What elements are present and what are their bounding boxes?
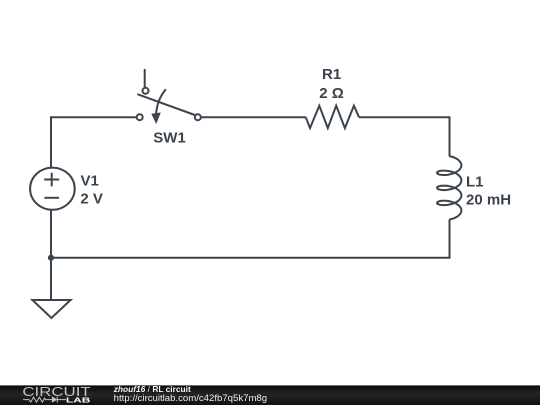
inductor L1 xyxy=(437,156,461,220)
wire SW1 right terminal to R1 xyxy=(201,116,306,118)
wire V1 bottom to ground xyxy=(50,208,52,300)
logo diode triangle xyxy=(52,396,57,402)
SW1 right terminal xyxy=(195,114,201,120)
node junction dot xyxy=(48,255,54,261)
svg-text:2 Ω: 2 Ω xyxy=(319,85,344,102)
SW1 top terminal xyxy=(143,88,149,94)
svg-text:L1: L1 xyxy=(466,174,484,191)
svg-text:R1: R1 xyxy=(322,66,341,83)
wire R1 to L1 xyxy=(359,117,450,156)
svg-text:SW1: SW1 xyxy=(153,130,186,147)
logo wire with resistor xyxy=(23,397,52,402)
svg-text:2 V: 2 V xyxy=(80,190,103,207)
logo diode bar xyxy=(57,397,66,403)
SW1 action arrow arc xyxy=(156,89,166,113)
wire L1 bottom to ground node xyxy=(51,220,450,258)
svg-text:http://circuitlab.com/c42fb7q5: http://circuitlab.com/c42fb7q5k7m8g xyxy=(114,393,268,403)
voltage source V1 xyxy=(30,168,75,210)
SW1 top stub xyxy=(144,69,146,87)
wire V1 top to SW1 left terminal xyxy=(51,117,137,168)
SW1 arrowhead xyxy=(151,113,161,125)
svg-text:20 mH: 20 mH xyxy=(466,191,511,208)
V1 minus sign xyxy=(44,197,59,199)
svg-text:LAB: LAB xyxy=(66,396,91,405)
V1 plus sign xyxy=(44,173,59,187)
SW1 left terminal xyxy=(137,114,143,120)
switch SW1 blade xyxy=(137,94,194,115)
ground xyxy=(32,300,70,318)
svg-text:V1: V1 xyxy=(81,172,99,189)
resistor R1 xyxy=(306,106,359,128)
